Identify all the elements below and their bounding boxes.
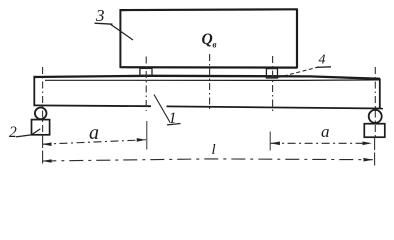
extension tick left pad (dimension a): [146, 121, 148, 150]
centerline right support: [374, 67, 376, 137]
svg-text:Q: Q: [202, 31, 213, 48]
dimension a left: dashed line: [43, 140, 147, 144]
roller support right: pedestal block: [364, 124, 385, 138]
svg-text:a: a: [89, 122, 99, 144]
extension tick right pad (dimension a): [269, 132, 271, 151]
dimension l: left arrowhead: [42, 159, 51, 163]
dimension a left: left arrowhead: [42, 142, 51, 146]
dimension a left: right arrowhead: [137, 138, 146, 142]
centerline right pad: [272, 56, 274, 111]
dimension a right: left arrowhead: [271, 142, 280, 146]
pad 4 left (small foot between block and beam): [140, 68, 152, 75]
label 1 with underline and leader: [154, 95, 181, 128]
svg-text:a: a: [321, 122, 330, 141]
roller support right: circle: [369, 110, 382, 123]
dimension l: dashed line: [42, 159, 373, 161]
label Qв inside block: [202, 31, 217, 50]
centerline left support: [42, 67, 44, 135]
svg-text:в: в: [213, 40, 217, 50]
roller support left: circle: [35, 108, 47, 120]
centerline beam middle: [209, 54, 211, 112]
centerline left pad: [145, 57, 147, 112]
svg-text:l: l: [212, 142, 216, 158]
label 3 with underline and leader: [95, 6, 134, 40]
load block 3 (box outline): [120, 9, 298, 68]
dimension a right: dashed line: [271, 142, 372, 144]
dimension a right: right arrowhead: [363, 142, 372, 146]
svg-text:3: 3: [95, 6, 105, 25]
roller support left: pedestal block 2: [32, 120, 50, 135]
beam 1 (long rectangle): [34, 76, 384, 109]
pad 4 right (small foot between block and beam): [266, 69, 277, 78]
label 4 with underline and dashed leader: [279, 53, 332, 78]
svg-text:2: 2: [9, 124, 17, 141]
label 2 with leader: [9, 124, 40, 141]
dimension l: right arrowhead: [364, 158, 373, 162]
svg-text:4: 4: [319, 53, 326, 68]
